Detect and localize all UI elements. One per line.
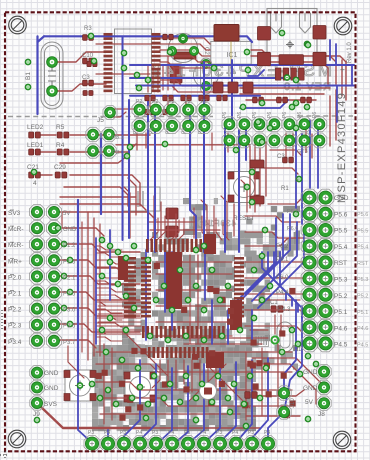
svg-text:P6.7: P6.7 <box>287 209 298 215</box>
svg-text:P3.5: P3.5 <box>63 324 76 330</box>
svg-text:P2: P2 <box>201 99 207 105</box>
svg-text:P4: P4 <box>136 430 142 436</box>
svg-text:P4.6: P4.6 <box>357 326 368 332</box>
svg-text:P3: P3 <box>248 430 254 436</box>
svg-text:P4: P4 <box>168 430 174 436</box>
svg-text:RST: RST <box>334 260 347 267</box>
svg-text:GND: GND <box>303 369 318 376</box>
svg-text:R4: R4 <box>56 142 65 149</box>
svg-text:P5.3: P5.3 <box>357 277 368 283</box>
svg-text:P3.7: P3.7 <box>63 340 76 346</box>
svg-text:P5.1: P5.1 <box>357 310 368 316</box>
svg-text:GND: GND <box>63 227 77 233</box>
svg-text:P3: P3 <box>216 430 222 436</box>
svg-text:P4: P4 <box>264 430 270 436</box>
svg-text:P2.1: P2.1 <box>8 291 22 298</box>
svg-text:P6: P6 <box>222 112 228 118</box>
svg-text:Rev 1.0: Rev 1.0 <box>347 42 353 63</box>
svg-text:P2.5: P2.5 <box>63 292 76 298</box>
svg-text:P5.3: P5.3 <box>334 277 348 284</box>
svg-text:LED2: LED2 <box>27 124 44 131</box>
svg-text:430F149 II: 430F149 II <box>188 219 236 228</box>
svg-text:P2: P2 <box>136 99 142 105</box>
svg-text:P5.4: P5.4 <box>357 245 368 251</box>
svg-text:P2: P2 <box>185 99 191 105</box>
svg-text:LED1: LED1 <box>27 142 44 149</box>
svg-text:P3: P3 <box>88 430 94 436</box>
svg-text:P6: P6 <box>312 112 318 118</box>
svg-text:P2: P2 <box>152 99 158 105</box>
svg-text:P3: P3 <box>120 430 126 436</box>
svg-text:RST: RST <box>357 261 369 267</box>
svg-text:P6: P6 <box>282 112 288 118</box>
svg-text:P4.6: P4.6 <box>334 325 348 332</box>
svg-text:J9: J9 <box>33 411 40 418</box>
svg-text:P5.2: P5.2 <box>334 293 348 300</box>
svg-text:P3.0: P3.0 <box>112 150 124 156</box>
svg-text:5V: 5V <box>305 399 314 406</box>
svg-text:McR-: McR- <box>8 226 24 233</box>
svg-text:P5.1: P5.1 <box>334 309 348 316</box>
svg-text:P3: P3 <box>184 430 190 436</box>
svg-text:P6.6: P6.6 <box>287 226 298 232</box>
svg-text:5V: 5V <box>63 211 70 217</box>
svg-text:P4: P4 <box>198 128 204 134</box>
svg-text:5: 5 <box>295 177 299 184</box>
svg-text:J5: J5 <box>97 117 104 124</box>
svg-text:SVS: SVS <box>44 401 58 408</box>
svg-text:P3: P3 <box>152 430 158 436</box>
svg-text:P2: P2 <box>168 99 174 105</box>
svg-text:P3.4: P3.4 <box>8 339 22 346</box>
svg-text:GT3: GT3 <box>297 149 308 155</box>
svg-text:C3: C3 <box>82 75 90 81</box>
svg-text:P2.1: P2.1 <box>63 275 76 281</box>
svg-text:MSP-EXP430F149: MSP-EXP430F149 <box>336 92 348 203</box>
svg-text:P3.0: P3.0 <box>63 308 76 314</box>
svg-text:C29: C29 <box>54 164 66 171</box>
svg-text:P6: P6 <box>267 112 273 118</box>
svg-text:P4.5: P4.5 <box>357 342 368 348</box>
svg-text:P4.3: P4.3 <box>278 307 291 313</box>
svg-text:C3: C3 <box>277 154 285 160</box>
svg-text:P6: P6 <box>252 112 258 118</box>
svg-text:P4: P4 <box>133 128 139 134</box>
svg-text:P4: P4 <box>182 128 188 134</box>
svg-text:P4.4: P4.4 <box>276 290 289 296</box>
svg-text:4: 4 <box>33 180 37 187</box>
svg-text:P3.1: P3.1 <box>112 135 124 141</box>
svg-text:R5: R5 <box>56 124 65 131</box>
svg-text:J10: J10 <box>290 398 296 408</box>
svg-text:McR-: McR- <box>8 242 24 249</box>
svg-text:P5.5: P5.5 <box>357 228 368 234</box>
svg-text:P6: P6 <box>297 112 303 118</box>
svg-text:P5.4: P5.4 <box>334 244 348 251</box>
svg-text:P4: P4 <box>149 128 155 134</box>
svg-text:P5.6: P5.6 <box>357 212 368 218</box>
svg-text:P4: P4 <box>165 128 171 134</box>
svg-text:R1: R1 <box>281 186 289 192</box>
svg-text:P6: P6 <box>237 112 243 118</box>
svg-text:P6.0: P6.0 <box>276 275 289 281</box>
svg-text:P5.5: P5.5 <box>334 228 348 235</box>
svg-text:P2.3: P2.3 <box>8 323 22 330</box>
svg-text:B1: B1 <box>25 72 32 80</box>
svg-text:P1.2: P1.2 <box>63 243 76 249</box>
svg-text:P2.2: P2.2 <box>8 307 22 314</box>
svg-text:P5.6: P5.6 <box>334 211 348 218</box>
svg-text:IC1: IC1 <box>227 52 238 59</box>
svg-text:P4: P4 <box>200 430 206 436</box>
svg-text:GND: GND <box>303 385 318 392</box>
svg-text:P6.1: P6.1 <box>276 257 289 263</box>
svg-text:+: + <box>338 67 347 72</box>
svg-text:GND: GND <box>44 385 59 392</box>
svg-text:P4: P4 <box>104 430 110 436</box>
svg-text:J8: J8 <box>318 411 325 418</box>
svg-text:MR+: MR+ <box>8 258 22 265</box>
svg-text:C1: C1 <box>270 300 278 306</box>
svg-text:P2.0: P2.0 <box>8 274 22 281</box>
svg-text:SV3: SV3 <box>8 210 21 217</box>
svg-text:C10: C10 <box>82 53 94 59</box>
svg-text:P6.2: P6.2 <box>276 244 289 250</box>
svg-text:C21: C21 <box>27 164 39 171</box>
svg-text:P1.3: P1.3 <box>63 259 76 265</box>
svg-text:GND: GND <box>44 370 59 377</box>
svg-text:P5.2: P5.2 <box>357 294 368 300</box>
svg-text:P4.5: P4.5 <box>334 342 348 349</box>
svg-text:R3: R3 <box>84 26 92 32</box>
svg-text:P4: P4 <box>232 430 238 436</box>
svg-text:P1.: P1. <box>294 347 303 353</box>
svg-text:REV 1.0: REV 1.0 <box>283 81 331 93</box>
